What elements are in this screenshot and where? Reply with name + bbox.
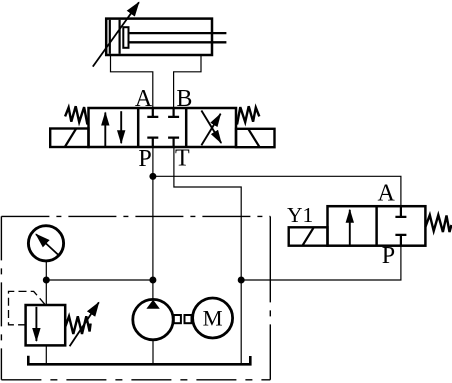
wire relief valve inlet (45, 280, 47, 305)
svg-text:A: A (378, 181, 396, 207)
wire valve Y1 port P to tank return (241, 246, 401, 280)
wire P junction to valve Y1 port A (153, 176, 401, 206)
relief valve internal arrow (35, 307, 37, 341)
wire pump junction to pump (152, 280, 154, 299)
relief valve spring (65, 316, 90, 334)
valve Y1 right position blocked ports (395, 206, 406, 246)
valve Y1 body (2/2 solenoid valve) (328, 206, 426, 246)
valve U1 left position arrows (105, 111, 121, 146)
pressure gauge needle (36, 234, 58, 255)
svg-text:Y1: Y1 (287, 203, 313, 227)
wire cylinder right port to valve port B (174, 55, 201, 108)
valve U1 body (4/3 directional valve) (89, 108, 237, 147)
pump outlet triangle (146, 300, 159, 309)
relief valve adjust arrow (70, 302, 99, 346)
shaft coupling (174, 315, 181, 323)
motor M1 (193, 298, 233, 338)
enclosure boundary (power unit) (1, 216, 270, 379)
valve U1 right position crossed arrows (201, 111, 221, 146)
wire pump suction (152, 340, 154, 365)
wire relief valve outlet (45, 345, 47, 364)
pump P1 (133, 299, 173, 339)
wire valve T return to tank (174, 147, 241, 364)
valve Y1 left position arrow (349, 210, 351, 246)
tank line (28, 356, 250, 365)
relief valve V2 body (26, 305, 66, 345)
wire pressure line gauge to pump (46, 279, 153, 281)
cylinder rod head (123, 27, 128, 48)
svg-text:P: P (382, 243, 395, 269)
valve U1 right spring (235, 106, 259, 124)
svg-text:P: P (138, 146, 151, 172)
wire cylinder left port to valve port A (111, 55, 153, 108)
pressure gauge (28, 226, 63, 261)
cylinder adjust arrow (93, 2, 139, 66)
node gauge junction (43, 277, 50, 284)
valve U1 left spring (65, 106, 89, 124)
cylinder piston (110, 20, 120, 54)
svg-text:B: B (176, 86, 192, 112)
svg-text:A: A (135, 86, 153, 112)
valve U1 left solenoid (50, 129, 88, 148)
svg-text:M: M (203, 306, 223, 331)
node P junction (149, 173, 156, 180)
node pump junction (149, 277, 156, 284)
svg-text:T: T (175, 146, 190, 172)
node tank return junction (238, 277, 245, 284)
valve Y1 spring (425, 215, 451, 232)
wire valve P down to pump junction (152, 147, 154, 280)
cylinder rod (129, 33, 227, 42)
valve U1 right solenoid (236, 129, 275, 147)
valve U1 center position blocked ports (147, 108, 179, 147)
wire gauge stem (45, 261, 47, 280)
valve Y1 solenoid (289, 227, 328, 245)
relief valve pilot line (dashed) (9, 291, 46, 324)
cylinder body (106, 19, 212, 55)
